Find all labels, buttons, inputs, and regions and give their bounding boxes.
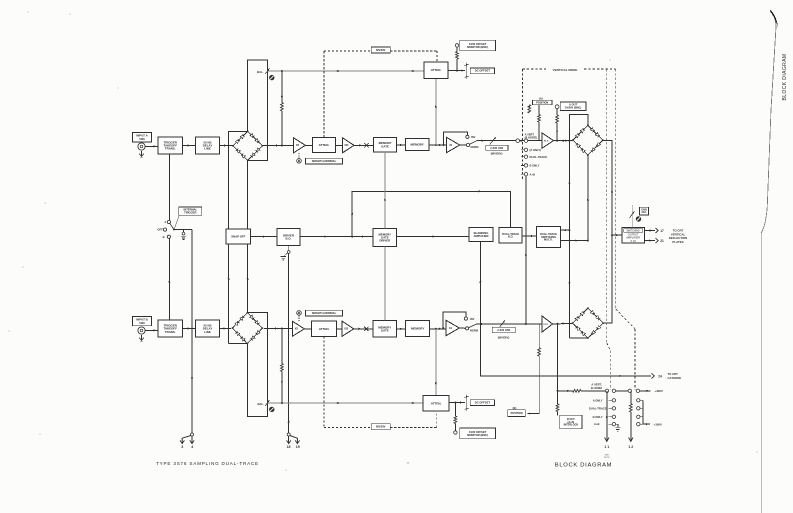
svg-text:TRIGGER: TRIGGER [184, 211, 196, 215]
svg-text:DUAL-TRACE: DUAL-TRACE [530, 155, 548, 159]
variable 2-200 VAR B [476, 320, 542, 339]
wire diamond B right vertex to output bus [603, 235, 612, 323]
connector J1 BNC input A [138, 143, 145, 150]
label x100 offset monitor B [460, 428, 496, 439]
switching diode gate A [572, 124, 604, 156]
block atten B [312, 321, 337, 336]
svg-text:A+B: A+B [530, 172, 536, 176]
wire multi to diamond B bus [560, 239, 588, 241]
wire bypass to dual-trace b.o. [351, 190, 510, 237]
resistor bal line A to signal line [281, 71, 284, 146]
bal adjust A [257, 68, 275, 80]
svg-text:1 2: 1 2 [628, 445, 633, 449]
wire trigger takeoff A down to switch [168, 154, 170, 220]
switch inv-norm B [442, 312, 478, 332]
bal adjust B [257, 400, 274, 412]
svg-text:2-200 VAR: 2-200 VAR [490, 146, 503, 150]
svg-text:LINE: LINE [204, 147, 211, 151]
position control A [528, 97, 552, 141]
svg-text:CATHODE: CATHODE [668, 376, 682, 380]
svg-text:SWITCHING: SWITCHING [627, 230, 640, 232]
svg-text:AMPLIFIER: AMPLIFIER [473, 234, 488, 238]
block memory gate B [373, 321, 397, 337]
svg-text:(A ONLY): (A ONLY) [530, 148, 542, 152]
svg-text:ATTEN.: ATTEN. [431, 401, 442, 405]
mode switch right column contacts +100V [637, 399, 662, 427]
wire offset atten B output [449, 401, 465, 403]
svg-text:MONITOR (BNC): MONITOR (BNC) [467, 45, 488, 49]
wire trigger takeoff to delay line A [183, 144, 196, 146]
wire output bus to switching output amplifier [611, 234, 622, 236]
svg-text:INV: INV [470, 317, 475, 321]
svg-text:4: 4 [191, 445, 193, 449]
wire memory gate driver to blanking amplifier [397, 235, 470, 237]
svg-text:A+B: A+B [594, 422, 600, 426]
variable 2-200 VAR A [477, 137, 518, 156]
block memory B [406, 321, 430, 337]
svg-text:(B HORIZ): (B HORIZ) [525, 136, 538, 140]
svg-text:INTERLOCK: INTERLOCK [564, 424, 579, 427]
wire trigger takeoff to delay line B [183, 327, 196, 329]
svg-text:DUAL-TRACE: DUAL-TRACE [589, 406, 607, 410]
label smooth-normal A [306, 158, 343, 164]
op-amp X25 A [343, 138, 355, 153]
wire delay line to bridge A [220, 144, 234, 146]
dashed gang line outer right with diagonal [616, 69, 635, 390]
wire memory A to x1 amp [429, 144, 447, 146]
svg-text:BAL.: BAL. [257, 402, 264, 406]
svg-text:DRIVER: DRIVER [380, 238, 391, 242]
wire memory B junction down to offset atten B [435, 329, 437, 396]
svg-text:INV: INV [471, 135, 476, 139]
connector J2 BNC input B [138, 327, 145, 334]
label internal trigger [179, 207, 202, 215]
wire bal feedback line B from atten [267, 402, 423, 404]
switch vertical mode contacts A side [516, 132, 547, 176]
svg-text:A: A [164, 220, 166, 224]
svg-text:GATE: GATE [381, 328, 389, 332]
block switching output amplifier [622, 227, 645, 243]
op-amp X1 A [446, 137, 460, 153]
svg-text:B HORIZ: B HORIZ [591, 386, 602, 390]
wire loop to diamond A top vertex [568, 115, 587, 142]
svg-text:B ONLY: B ONLY [530, 164, 540, 168]
wire bridge A output to x5 amp [262, 144, 293, 146]
wire snap-off to driver b.o. [251, 235, 277, 237]
svg-text:A VERT,: A VERT, [591, 382, 601, 386]
ground on trigger switch [181, 230, 186, 240]
svg-text:[MV/DIV]: [MV/DIV] [491, 152, 503, 156]
connector A OUT [555, 102, 586, 141]
svg-text:NORM: NORM [470, 329, 478, 333]
svg-text:POSITION: POSITION [511, 412, 523, 415]
wire blanking amplifier to crt cathode [479, 242, 681, 380]
wire multi to A+B bus [560, 229, 570, 231]
svg-text:X1.5: X1.5 [544, 140, 549, 142]
wire switch to internal trigger line [174, 230, 193, 434]
page tab edge [761, 10, 778, 513]
wire input A to trigger takeoff [145, 145, 158, 147]
wire x25 to memory gate A [354, 143, 374, 147]
wire diamond A bottom vertex to dual-trace multi [587, 155, 589, 241]
svg-text:X1: X1 [449, 326, 453, 330]
resistor to offset monitor B [454, 403, 457, 435]
ground A+B contact [615, 424, 620, 431]
svg-text:18: 18 [287, 445, 291, 449]
svg-text:DC OFFSET: DC OFFSET [475, 69, 491, 73]
wire offset atten A output [448, 69, 465, 71]
wire memory B to x1 amp [430, 328, 446, 330]
svg-text:NORM: NORM [471, 145, 479, 149]
svg-text:B ONLY: B ONLY [593, 415, 603, 419]
block driver b.o. [277, 229, 300, 246]
wire outputs to crt plates pins 17 21 [644, 228, 687, 244]
wire memory gate driver down to gate B [384, 246, 386, 320]
svg-text:DC OFFSET: DC OFFSET [475, 401, 491, 405]
pins 3 4 [180, 433, 194, 449]
dc offset control A [465, 63, 495, 80]
mechanical gang dashed link A with MV/DIV [324, 47, 437, 137]
svg-text:17: 17 [660, 229, 664, 233]
svg-text:MONITOR (BNC): MONITOR (BNC) [467, 433, 488, 437]
svg-text:X5: X5 [296, 143, 300, 147]
svg-text:1 1: 1 1 [604, 445, 609, 449]
wire bridge A top vertex to snap-off line [229, 131, 248, 229]
svg-text:GATE: GATE [381, 144, 389, 148]
block atten A [313, 137, 336, 152]
wire bridge B bottom vertex to snap-off line [229, 343, 248, 345]
pin 11 [604, 391, 610, 459]
wire atten B to x25 amp [337, 328, 343, 330]
smoothing control A [297, 153, 302, 163]
svg-text:BLOCK DIAGRAM: BLOCK DIAGRAM [782, 54, 788, 101]
pin 12 [628, 391, 633, 449]
svg-text:21: 21 [660, 239, 664, 243]
wire A+B contact down to channel B line [525, 176, 527, 324]
svg-text:50Ω: 50Ω [139, 137, 145, 141]
switch inv-norm A [443, 132, 479, 149]
resistor bal line B to signal line [281, 329, 284, 404]
svg-text:OFF: OFF [157, 228, 163, 232]
svg-text:A ONLY: A ONLY [593, 398, 603, 402]
svg-text:+300V: +300V [655, 389, 664, 393]
wire memory gate B to memory B [397, 328, 406, 330]
wire x1.5 A to gate diamond [554, 140, 573, 142]
label x100 offset monitor A [460, 40, 496, 51]
connector B OUT interlock [556, 390, 582, 429]
wire x5 to atten B [304, 328, 311, 330]
wire x25 to memory gate B [354, 327, 373, 331]
svg-text:TYPE 3S76 SAMPLING DUAL-TRA: TYPE 3S76 SAMPLING DUAL-TRACE [156, 461, 259, 466]
wire atten A to x25 amp [335, 144, 342, 146]
wire bridge B output to x5 amp [264, 327, 293, 329]
svg-text:X25: X25 [344, 145, 349, 147]
wire driver b.o. to memory gate driver [300, 235, 373, 237]
svg-text:TRANS.: TRANS. [165, 147, 176, 151]
svg-text:BLOCK DIAGRAM: BLOCK DIAGRAM [555, 463, 612, 469]
wire trigger takeoff B up to switch [168, 238, 170, 320]
gain adjust switching amplifier [630, 205, 649, 227]
svg-text:+100V: +100V [654, 422, 663, 426]
label smooth-normal B [306, 310, 343, 316]
block trigger takeoff trans A [158, 137, 183, 154]
dashed gang line inner right [607, 69, 611, 389]
svg-text:X25: X25 [344, 329, 349, 331]
op-amp X1 B [446, 320, 460, 336]
svg-text:BAL.: BAL. [257, 70, 264, 74]
block blanking amplifier [469, 228, 493, 242]
svg-text:(B): (B) [513, 406, 517, 410]
ground driver b.o. [281, 246, 290, 260]
op-amp X1.5 B [542, 316, 553, 332]
wire driver b.o. to pins 18 19 [288, 253, 290, 433]
svg-text:SMOOTH-NORMAL: SMOOTH-NORMAL [312, 311, 337, 315]
wire contact to x1.5 amp A [528, 140, 543, 142]
svg-text:SMOOTH-NORMAL: SMOOTH-NORMAL [312, 159, 337, 163]
wire x1.5 B to gate diamond B [553, 322, 573, 325]
block snap-off [226, 229, 251, 244]
wire x1.5 B output down to mode switch row [557, 324, 559, 391]
mechanical gang dashed link B with MV/DIV [324, 337, 437, 430]
block dual-trace switching multi [537, 227, 561, 248]
wire input B to trigger takeoff [145, 329, 158, 331]
op-amp X5 B [292, 321, 304, 336]
position control B [508, 324, 541, 417]
resistor to offset monitor A [455, 44, 458, 71]
sampling bridge A [232, 130, 263, 161]
svg-text:MEMORY: MEMORY [411, 143, 424, 147]
svg-text:X1: X1 [449, 143, 453, 147]
svg-text:B: B [163, 235, 165, 239]
wire delay line to bridge B [220, 327, 232, 329]
svg-text:SNAP OFF: SNAP OFF [231, 235, 245, 239]
connector INPUT A label [133, 133, 152, 142]
svg-text:2V/DIV (BNC): 2V/DIV (BNC) [565, 105, 581, 109]
svg-text:B.O.: B.O. [508, 235, 514, 239]
wire bal feedback line A from atten [267, 70, 424, 72]
svg-text:2-200 VAR: 2-200 VAR [497, 328, 510, 332]
svg-text:X1.5: X1.5 [543, 324, 548, 326]
block offset atten A [424, 62, 448, 78]
svg-text:ADJ.: ADJ. [641, 211, 647, 214]
svg-text:LINE: LINE [204, 330, 211, 334]
svg-text:VERTICAL MODE: VERTICAL MODE [553, 68, 578, 72]
switching diode gate B [572, 307, 605, 339]
mode switch row 1 +300V [558, 382, 664, 393]
op-amp X25 B [342, 321, 354, 336]
wire diamond B bottom vertex loop to A+B bus [569, 337, 588, 339]
svg-text:3: 3 [181, 445, 183, 449]
smoothing control B [297, 311, 302, 322]
wire A+B bus down through rows [568, 141, 570, 338]
connector INPUT B label [133, 317, 152, 326]
block dual-trace b.o. [499, 228, 522, 244]
svg-text:POSITION: POSITION [536, 101, 548, 104]
switch trigger source [157, 215, 179, 239]
block offset atten B [423, 395, 449, 411]
svg-text:ATTEN.: ATTEN. [319, 143, 330, 147]
svg-text:PLATES: PLATES [672, 240, 683, 244]
svg-text:24: 24 [658, 374, 662, 378]
wire snap-off strobe lines to bridge B [228, 244, 249, 343]
svg-text:ATTEN.: ATTEN. [431, 68, 442, 72]
svg-text:B.O.: B.O. [286, 237, 292, 241]
block memory gate A [374, 138, 397, 152]
svg-text:NOTE: NOTE [604, 457, 610, 459]
svg-text:MV/DIV: MV/DIV [376, 425, 385, 429]
pins 18 19 [287, 433, 300, 449]
svg-text:X5: X5 [295, 327, 299, 331]
wire dual-trace b.o. to switching multi [522, 235, 537, 237]
ground below input A [139, 151, 144, 158]
op-amp X5 A [293, 138, 305, 153]
dc offset control B [465, 395, 495, 412]
svg-text:MEMORY: MEMORY [411, 327, 424, 331]
block memory A [406, 139, 429, 151]
wire bridge A bottom vertex to snap-off [247, 160, 249, 229]
wire bridge A balance loop rectangle [248, 60, 268, 160]
svg-text:19: 19 [296, 445, 300, 449]
wire memory gate driver up to gate A [384, 152, 386, 229]
block 55ns delay line B [196, 320, 220, 337]
block trigger takeoff trans B [158, 320, 183, 337]
svg-text:MV/DIV: MV/DIV [376, 48, 385, 52]
mode switch left column contacts [589, 398, 616, 426]
svg-text:TRANS.: TRANS. [165, 330, 176, 334]
wire memory gate A to memory A [397, 144, 406, 146]
wire memory A junction up to offset atten [435, 78, 437, 145]
op-amp X1.5 A [542, 133, 553, 148]
dashed enclosure VERTICAL MODE [522, 68, 615, 180]
block 55ns delay line A [196, 137, 220, 154]
ground below input B [139, 335, 144, 342]
svg-text:MULTI .: MULTI . [544, 238, 553, 242]
svg-text:ATTEN.: ATTEN. [319, 327, 330, 331]
svg-text:(MV/DIV): (MV/DIV) [498, 336, 510, 340]
svg-text:50Ω: 50Ω [139, 321, 145, 325]
wire x5 to atten A [305, 144, 312, 146]
block memory gate driver [373, 229, 396, 247]
wire bridge B balance loop rectangle [247, 313, 267, 417]
wire diamond A right vertex to output bus [603, 141, 613, 236]
svg-text:X 16: X 16 [630, 239, 636, 243]
sampling bridge B [232, 312, 264, 345]
